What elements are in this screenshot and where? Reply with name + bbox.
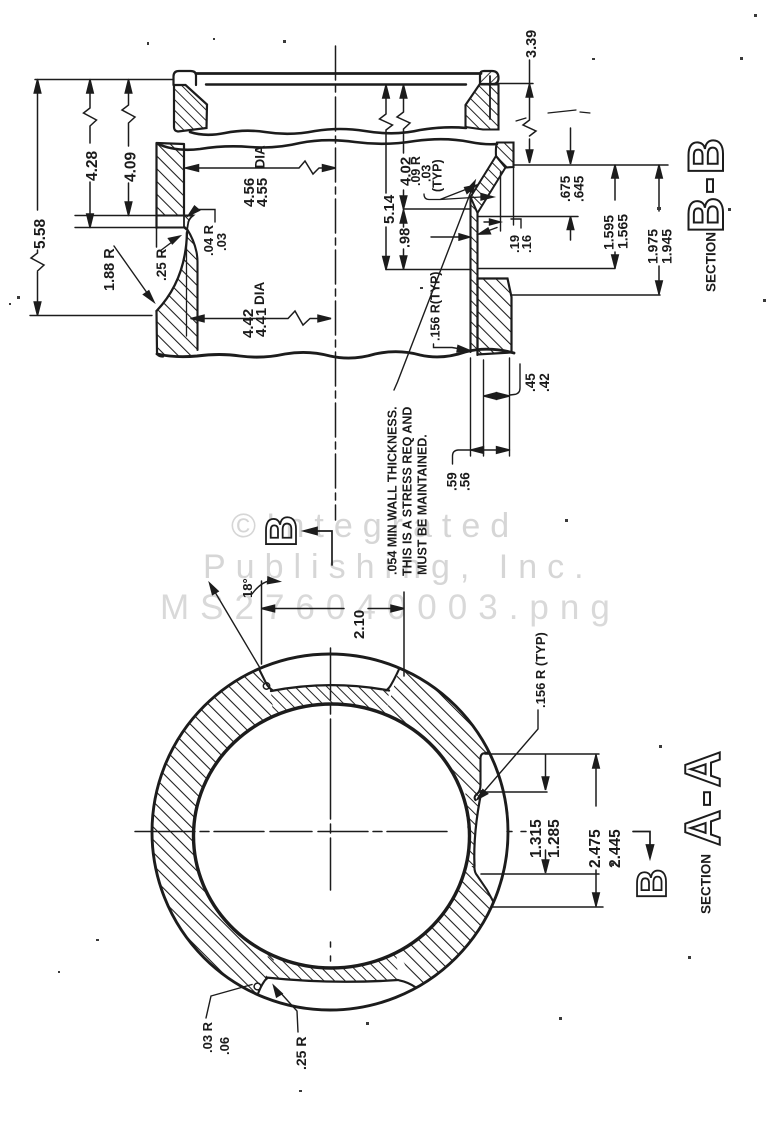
svg-text:2.10: 2.10 <box>351 610 368 639</box>
svg-text:1.88 R: 1.88 R <box>102 248 118 291</box>
svg-text:A-A: A-A <box>675 748 731 846</box>
dimension 1.595/1.565 <box>612 165 619 268</box>
thin cylindrical wall inner line <box>476 213 478 355</box>
bead at lower wall end <box>480 71 499 84</box>
svg-text:2.445: 2.445 <box>607 829 624 868</box>
svg-text:.06: .06 <box>217 1037 232 1055</box>
groove slot top wall line <box>157 214 193 216</box>
svg-text:.156 R (TYP): .156 R (TYP) <box>533 632 548 708</box>
bead inner seam line <box>489 76 491 119</box>
svg-text:DIA: DIA <box>252 282 267 306</box>
bottom relief left step wall <box>258 978 268 995</box>
flange rim extension line y295 <box>512 294 661 296</box>
bore surface line y269 right <box>478 268 616 270</box>
dimension 4.28 <box>84 80 97 228</box>
svg-text:1.565: 1.565 <box>615 214 631 249</box>
bottom relief left step fillet <box>254 983 261 990</box>
rounded lip tab at upper wall end <box>174 71 197 85</box>
dimension .98 <box>400 210 407 269</box>
outer circle <box>152 654 508 1010</box>
svg-text:(TYP): (TYP) <box>431 159 445 192</box>
svg-text:.98: .98 <box>398 228 414 248</box>
groove slot bottom wall line <box>157 226 184 228</box>
svg-text:SECTION: SECTION <box>699 854 714 914</box>
svg-text:B: B <box>628 869 675 899</box>
lower wall section block upper part (hatched) <box>157 143 185 216</box>
lower wall section block (hatched) <box>466 85 499 130</box>
top relief floor line <box>271 685 389 691</box>
svg-text:18°: 18° <box>240 578 255 598</box>
bottom relief right step wall <box>399 980 416 987</box>
svg-text:1.315: 1.315 <box>528 819 545 858</box>
inner surface line of end rim <box>206 83 466 85</box>
thin wall hatch <box>471 197 478 355</box>
svg-text:.25 R: .25 R <box>154 248 169 281</box>
svg-text:B-B: B-B <box>678 135 734 233</box>
dimension 1.315/1.285 <box>479 754 599 874</box>
svg-text:5.14: 5.14 <box>381 194 398 224</box>
bore circle <box>194 704 470 968</box>
dimension 3.39 <box>523 60 536 163</box>
top relief thin band (hatched) <box>271 686 389 716</box>
svg-text:.45: .45 <box>523 373 538 392</box>
svg-text:.03 R: .03 R <box>200 1021 215 1053</box>
right relief thin band (hatched) <box>463 791 482 866</box>
wavy break line 2 <box>157 139 497 150</box>
upper wall section block (hatched) <box>174 85 207 132</box>
groove 1.88R concave profile <box>157 232 188 311</box>
svg-text:1.285: 1.285 <box>546 819 563 858</box>
thin cylindrical wall outer line <box>469 197 471 352</box>
svg-text:THIS IS A STRESS REQ AND: THIS IS A STRESS REQ AND <box>401 407 415 576</box>
dimension 4.02 <box>397 85 410 209</box>
top-right full-thickness sector (hatched) <box>385 668 488 793</box>
dimension .59/.56 with bracket <box>453 358 510 464</box>
groove root wedge (hatched) <box>184 216 193 231</box>
dimension .675/.645 <box>567 128 574 240</box>
dimension 5.58 <box>31 80 44 316</box>
circle A-A horizontal centerline <box>135 831 526 833</box>
flange face extension line long <box>514 164 669 166</box>
dimension 4.42/4.41 DIA <box>191 311 331 325</box>
svg-text:.42: .42 <box>537 373 552 392</box>
right relief floor line <box>474 791 481 866</box>
svg-text:4.41: 4.41 <box>253 308 270 337</box>
svg-text:MUST BE MAINTAINED.: MUST BE MAINTAINED. <box>416 434 430 575</box>
dimension 2.10 <box>262 581 405 676</box>
svg-text:4.55: 4.55 <box>254 178 271 207</box>
bottom-right full-thickness sector (hatched) <box>398 866 493 988</box>
groove slot lower extension line <box>75 227 158 229</box>
bore surface line y269 left <box>386 269 471 271</box>
dimension 1.975/1.945 <box>656 165 663 294</box>
svg-text:.645: .645 <box>572 175 587 202</box>
lower wall section block lower part (hatched) <box>157 228 198 357</box>
bottom relief floor line <box>266 978 398 982</box>
dimension 4.56/4.55 DIA <box>186 161 336 174</box>
bottom relief thin band (hatched) <box>266 952 398 982</box>
extension stub toward 3.39 dimension <box>498 83 533 85</box>
svg-text:DIA: DIA <box>253 145 268 169</box>
svg-text:.56: .56 <box>458 472 473 491</box>
right relief upper step wall with notch <box>475 753 488 801</box>
top relief left step fillet <box>263 683 269 689</box>
svg-text:3.39: 3.39 <box>524 30 540 58</box>
outer surface line of end rim <box>196 72 481 75</box>
extension line at tube end face <box>35 79 173 81</box>
bottom wavy break line 3 <box>157 349 514 358</box>
svg-text:4.28: 4.28 <box>84 150 101 181</box>
extension line for 4.42 groove dia <box>186 233 188 336</box>
step surface line y216 <box>478 216 579 218</box>
dimension .19/.16 with bracket <box>431 167 521 240</box>
conical ramp top block (hatched) <box>496 143 514 168</box>
svg-text:1.945: 1.945 <box>659 229 675 264</box>
svg-text:.054 MIN WALL THICKNESS.: .054 MIN WALL THICKNESS. <box>386 406 400 575</box>
groove slot upper extension line <box>75 215 158 217</box>
svg-text:.03: .03 <box>214 233 229 251</box>
flange block (hatched) <box>478 279 512 355</box>
svg-text:.25 R: .25 R <box>293 1037 309 1070</box>
svg-text:4.09: 4.09 <box>123 151 140 182</box>
top relief left step wall <box>259 669 273 691</box>
extension line for 5.58 at lower face <box>30 315 152 317</box>
lower block left edge and bottom corner <box>157 311 164 357</box>
wavy break line 1 <box>190 127 466 134</box>
bore edge below groove <box>187 229 198 350</box>
centerline of section B-B <box>335 46 337 520</box>
dimension 2.475/2.445 <box>492 755 603 907</box>
top relief right step wall <box>386 668 400 690</box>
right relief lower step wall <box>474 866 493 902</box>
conical ramp thin wall (hatched strip) <box>471 156 506 213</box>
svg-text:SECTION: SECTION <box>704 232 719 292</box>
phantom dash artifacts <box>516 110 590 121</box>
dimension .45/.42 with bracket <box>484 358 521 456</box>
dimension 5.14 <box>380 85 393 270</box>
faint bore extension below slot <box>156 228 158 247</box>
step surface line y209 <box>404 208 471 210</box>
dimension 4.09 <box>122 80 135 216</box>
svg-text:5.58: 5.58 <box>32 218 49 249</box>
circle A-A vertical centerline <box>330 648 332 1032</box>
svg-text:B: B <box>257 515 306 547</box>
svg-text:2.475: 2.475 <box>587 829 604 868</box>
left full-thickness sector (hatched) <box>152 669 276 995</box>
svg-text:.16: .16 <box>519 235 534 253</box>
